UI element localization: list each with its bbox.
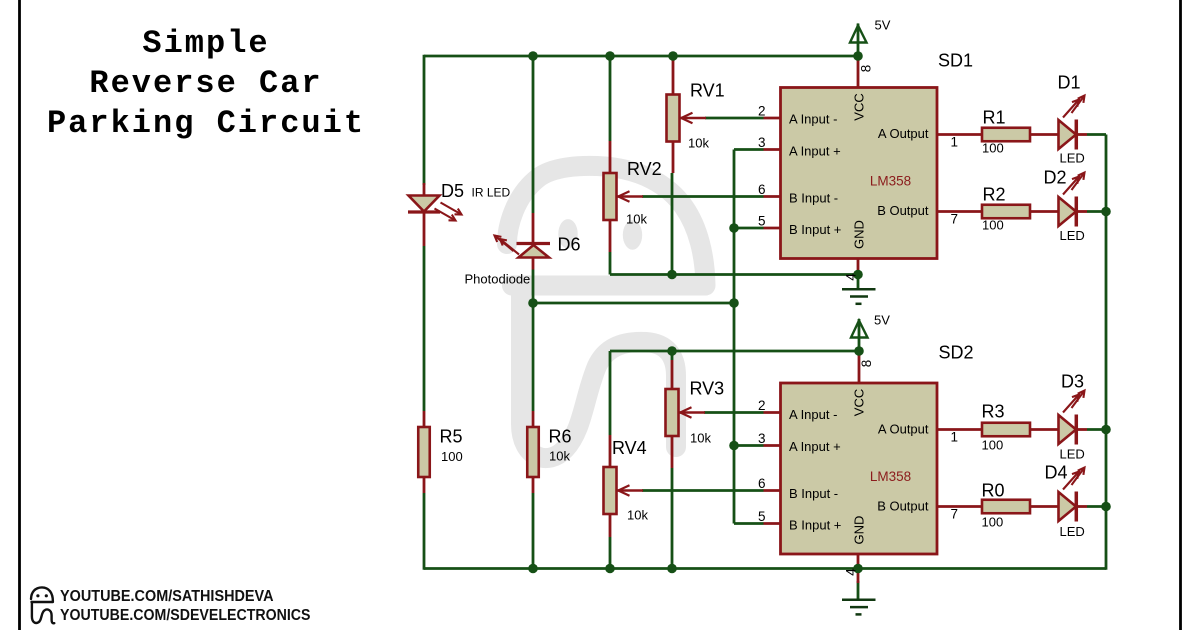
svg-text:RV1: RV1 <box>690 81 725 101</box>
svg-text:100: 100 <box>982 141 1004 156</box>
svg-text:B Input +: B Input + <box>789 518 841 533</box>
svg-text:YOUTUBE.COM/SATHISHDEVA: YOUTUBE.COM/SATHISHDEVA <box>60 588 274 605</box>
svg-text:10k: 10k <box>688 136 709 151</box>
svg-text:VCC: VCC <box>852 93 867 120</box>
svg-text:100: 100 <box>982 438 1004 453</box>
svg-text:Parking Circuit: Parking Circuit <box>47 105 365 142</box>
svg-text:D6: D6 <box>558 235 581 255</box>
svg-text:100: 100 <box>982 515 1004 530</box>
svg-text:A Input +: A Input + <box>789 144 841 159</box>
svg-text:D1: D1 <box>1058 73 1081 93</box>
svg-text:B Output: B Output <box>877 499 929 514</box>
svg-text:2: 2 <box>758 398 766 413</box>
svg-text:RV3: RV3 <box>690 379 725 399</box>
svg-text:IR LED: IR LED <box>472 186 511 200</box>
svg-text:A Input +: A Input + <box>789 439 841 454</box>
svg-text:1: 1 <box>951 135 959 150</box>
svg-text:8: 8 <box>859 360 874 368</box>
svg-text:R3: R3 <box>982 402 1005 422</box>
svg-text:R2: R2 <box>983 185 1006 205</box>
svg-text:RV2: RV2 <box>627 159 662 179</box>
svg-text:10k: 10k <box>627 508 648 523</box>
svg-text:R5: R5 <box>440 427 463 447</box>
svg-text:4: 4 <box>844 568 859 576</box>
svg-text:LED: LED <box>1060 151 1085 166</box>
svg-text:10k: 10k <box>549 449 570 464</box>
svg-text:10k: 10k <box>690 431 711 446</box>
svg-text:B Input +: B Input + <box>789 222 841 237</box>
svg-text:10k: 10k <box>626 212 647 227</box>
svg-text:Reverse Car: Reverse Car <box>89 65 322 102</box>
svg-text:D2: D2 <box>1044 168 1067 188</box>
svg-text:A Input -: A Input - <box>789 112 837 127</box>
svg-text:LED: LED <box>1060 228 1085 243</box>
svg-text:R0: R0 <box>982 481 1005 501</box>
svg-text:4: 4 <box>844 273 859 281</box>
svg-text:A Output: A Output <box>878 126 929 141</box>
svg-text:SD2: SD2 <box>939 343 974 363</box>
svg-text:8: 8 <box>858 65 873 73</box>
svg-text:LM358: LM358 <box>870 174 911 189</box>
svg-text:7: 7 <box>951 507 959 522</box>
svg-text:6: 6 <box>758 476 766 491</box>
svg-text:D4: D4 <box>1045 463 1068 483</box>
svg-text:2: 2 <box>758 104 766 119</box>
svg-text:R6: R6 <box>549 427 572 447</box>
svg-text:3: 3 <box>758 431 766 446</box>
svg-text:YOUTUBE.COM/SDEVELECTRONICS: YOUTUBE.COM/SDEVELECTRONICS <box>60 607 311 624</box>
svg-text:A Input -: A Input - <box>789 407 837 422</box>
svg-text:5V: 5V <box>874 313 890 328</box>
svg-text:100: 100 <box>441 449 463 464</box>
svg-text:GND: GND <box>852 220 867 249</box>
svg-text:B Input -: B Input - <box>789 486 838 501</box>
svg-text:GND: GND <box>852 516 867 545</box>
svg-text:B Output: B Output <box>877 203 929 218</box>
svg-text:5: 5 <box>758 509 766 524</box>
svg-text:RV4: RV4 <box>612 438 647 458</box>
svg-text:LED: LED <box>1060 524 1085 539</box>
svg-text:B Input -: B Input - <box>789 191 838 206</box>
svg-text:LM358: LM358 <box>870 469 911 484</box>
svg-text:5: 5 <box>758 214 766 229</box>
svg-text:100: 100 <box>982 218 1004 233</box>
svg-text:A Output: A Output <box>878 422 929 437</box>
svg-text:3: 3 <box>758 135 766 150</box>
svg-text:D5: D5 <box>441 181 464 201</box>
svg-text:6: 6 <box>758 182 766 197</box>
svg-text:LED: LED <box>1060 447 1085 462</box>
svg-text:D3: D3 <box>1061 372 1084 392</box>
svg-text:Simple: Simple <box>142 25 269 62</box>
svg-text:R1: R1 <box>983 108 1006 128</box>
svg-text:5V: 5V <box>875 18 891 33</box>
svg-text:VCC: VCC <box>852 389 867 416</box>
svg-text:Photodiode: Photodiode <box>465 272 531 287</box>
svg-text:1: 1 <box>951 430 959 445</box>
svg-text:SD1: SD1 <box>938 51 973 71</box>
svg-text:7: 7 <box>951 212 959 227</box>
